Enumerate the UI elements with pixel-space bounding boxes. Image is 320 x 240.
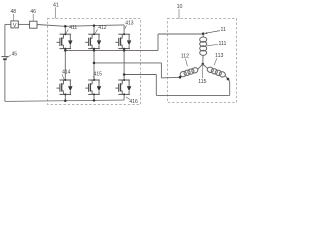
label 48	[11, 9, 17, 21]
label 416	[126, 97, 138, 105]
svg-text:113: 113	[215, 53, 223, 59]
star point neutral	[202, 63, 205, 66]
phase A riser wire	[157, 34, 159, 50]
phase A wire to coil	[158, 33, 203, 35]
phase C up wire	[229, 82, 231, 96]
leg3 mid vertical	[123, 49, 125, 80]
voltmeter box 48	[11, 21, 18, 29]
svg-text:412: 412	[98, 25, 107, 31]
leg3 source pin	[123, 94, 125, 100]
leg2 mid vertical	[93, 49, 95, 80]
svg-text:111: 111	[218, 41, 226, 47]
svg-text:10: 10	[177, 4, 183, 10]
junction dots phase A rail	[64, 49, 67, 52]
label 111	[207, 41, 226, 47]
battery 45	[1, 24, 8, 101]
bottom negative rail	[5, 100, 124, 101]
transistor Q416	[115, 79, 131, 95]
label 11 with arrow	[204, 27, 226, 34]
inverter dashed box 41	[48, 19, 141, 105]
transistor Q412	[85, 33, 101, 49]
phase C diagonal to coil	[228, 79, 230, 82]
svg-text:45: 45	[12, 51, 18, 57]
wire voltmeter to box 46	[18, 23, 29, 25]
label 112	[181, 54, 189, 67]
wire box46 to inverter / positive top rail	[37, 25, 124, 27]
coil 111 (U-phase winding)	[200, 32, 207, 64]
junction dot phase C tap	[123, 73, 126, 76]
transistor Q411	[57, 33, 73, 49]
leg2 drain pin	[93, 26, 95, 35]
label 10	[177, 4, 183, 19]
svg-text:112: 112	[181, 54, 189, 60]
phase B down wire	[160, 63, 162, 78]
svg-text:415: 415	[94, 72, 103, 78]
junction dots top rail	[64, 25, 67, 28]
svg-text:414: 414	[62, 69, 71, 75]
phase C bottom wire	[156, 94, 229, 96]
phase B tap wire	[94, 62, 161, 64]
svg-text:411: 411	[69, 25, 77, 31]
leg1 source pin	[64, 94, 66, 100]
svg-text:V: V	[13, 23, 17, 29]
svg-text:115: 115	[198, 79, 206, 85]
transistor Q413	[115, 33, 131, 49]
label 412	[95, 25, 107, 34]
label 113	[214, 53, 224, 65]
label 45	[6, 51, 17, 58]
svg-text:416: 416	[129, 99, 138, 105]
svg-text:41: 41	[53, 2, 59, 8]
label 115	[198, 66, 206, 85]
junction dots bottom rail	[64, 99, 67, 102]
phase C tap wire	[124, 74, 156, 76]
label 411	[66, 25, 77, 34]
label 414	[62, 69, 71, 79]
label 413	[125, 21, 134, 29]
transistor Q414	[57, 79, 73, 95]
transistor Q415	[85, 79, 101, 95]
junction dot phase B tap	[93, 62, 96, 65]
label 415	[93, 72, 102, 80]
label 41	[53, 2, 59, 18]
coil 112 (V-phase winding)	[179, 64, 203, 78]
motor dashed box 10	[168, 19, 237, 103]
label 46	[30, 9, 36, 21]
svg-text:11: 11	[221, 27, 226, 33]
leg1 mid vertical	[64, 49, 66, 80]
phase C down wire	[155, 75, 157, 96]
leg2 source pin	[93, 94, 95, 100]
coil 113 (W-phase winding)	[203, 64, 230, 80]
leg1 drain pin	[64, 26, 66, 34]
phase A rail	[65, 49, 158, 51]
wire battery to voltmeter	[5, 23, 11, 25]
phase B wire to coil	[161, 76, 180, 79]
box 46	[30, 21, 37, 28]
leg3 drain pin	[123, 25, 125, 34]
